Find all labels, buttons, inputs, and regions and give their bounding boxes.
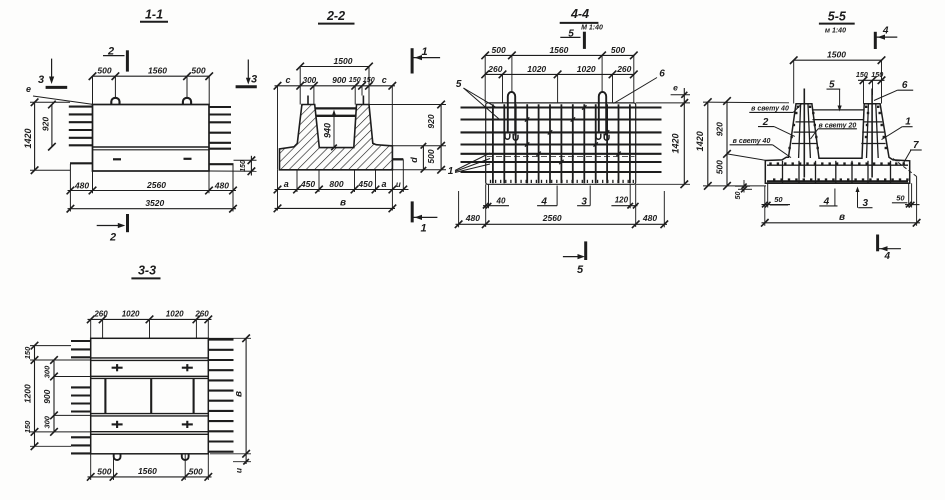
svg-text:150: 150: [23, 420, 32, 433]
section flag 1 (top right): [412, 46, 440, 74]
svg-text:4: 4: [882, 26, 889, 37]
svg-text:500: 500: [97, 66, 111, 76]
pylon reinforcement (ladders): [792, 89, 886, 178]
hairpin loop bars (items 5/6): [505, 92, 609, 140]
protruding rebar right: [209, 107, 234, 164]
dimensions 500/1560/500 and 260/1020/1020/260 (top): [481, 45, 637, 103]
svg-text:260: 260: [93, 309, 108, 318]
svg-text:7: 7: [913, 140, 919, 151]
svg-text:900: 900: [332, 75, 346, 85]
svg-text:1500: 1500: [334, 56, 353, 66]
svg-text:1: 1: [420, 223, 426, 235]
svg-text:и: и: [234, 467, 244, 473]
callout 1 with leaders: [448, 153, 490, 177]
svg-text:1560: 1560: [138, 466, 157, 476]
svg-text:1-1: 1-1: [145, 8, 163, 22]
svg-text:500: 500: [611, 45, 625, 55]
svg-text:1: 1: [905, 117, 911, 128]
panel outline 3-3 with band lines: [91, 338, 209, 454]
svg-text:920: 920: [40, 117, 50, 131]
section flag 2 (bottom): [97, 214, 128, 244]
svg-text:d: d: [409, 157, 419, 163]
svg-text:150: 150: [363, 75, 375, 84]
section flag 5 (top): [560, 28, 584, 49]
svg-text:а: а: [284, 179, 289, 189]
svg-text:150: 150: [23, 346, 32, 359]
label е (loop protrusion): [671, 83, 690, 106]
svg-text:260: 260: [487, 64, 502, 74]
svg-text:3520: 3520: [145, 198, 164, 208]
svg-text:480: 480: [642, 213, 657, 223]
svg-text:в: в: [839, 212, 845, 223]
callout 1 with leader: [882, 117, 913, 140]
svg-text:с: с: [285, 75, 290, 85]
svg-text:3: 3: [251, 74, 257, 86]
svg-text:м 1:40: м 1:40: [825, 27, 846, 34]
label "в свету 40" (lower): [730, 138, 791, 158]
dimensions 500/1560/500 (bottom of 3-3): [87, 454, 212, 481]
dimension 150 (right step): [209, 156, 257, 176]
svg-text:120: 120: [615, 195, 629, 204]
dimensions а/450/800/450/а/и and в (bottom): [274, 159, 409, 212]
svg-text:50: 50: [896, 193, 905, 202]
section flag 2 (top): [103, 45, 127, 71]
dimension 1420 (right of 4-4): [636, 88, 690, 188]
svg-text:50: 50: [733, 192, 742, 200]
dimension 1500 (top): [296, 56, 372, 105]
svg-text:480: 480: [465, 213, 480, 223]
svg-text:500: 500: [714, 160, 724, 174]
node label е with leader: [26, 84, 92, 104]
dimensions 1420, 920, 500 (left): [695, 97, 789, 190]
svg-text:480: 480: [74, 180, 89, 190]
svg-text:940: 940: [322, 123, 332, 138]
svg-text:1200: 1200: [22, 384, 32, 403]
svg-text:3: 3: [38, 74, 44, 86]
binding-wire tick marks: [525, 105, 621, 164]
svg-text:920: 920: [426, 114, 436, 128]
svg-text:150: 150: [856, 70, 868, 79]
svg-text:500: 500: [97, 466, 111, 476]
svg-text:450: 450: [300, 179, 315, 189]
foundation body outline 5-5: [765, 104, 909, 184]
svg-text:300: 300: [42, 415, 51, 428]
view 4-4 title with scale: [560, 7, 603, 31]
dashed slope line (item 7): [893, 159, 917, 177]
callout 2 with leader: [758, 117, 795, 136]
protruding rebar left (plan): [71, 341, 91, 453]
svg-text:5-5: 5-5: [828, 10, 847, 24]
protruding rebar left: [69, 107, 93, 164]
section flag 3 (left): [38, 59, 67, 88]
bottom mesh tick row: [491, 180, 634, 183]
dimension 500/1560/500 (top): [89, 66, 213, 105]
svg-text:920: 920: [714, 122, 724, 136]
protruding rebar right (plan): [208, 340, 233, 452]
top plate between pylons: [315, 108, 357, 115]
rebar stubs on pylons: [308, 96, 363, 105]
svg-text:1420: 1420: [23, 128, 33, 148]
protruding bar right (step): [392, 158, 403, 160]
lifting loops (bottom, plan): [114, 454, 189, 460]
dimension 50 (left, cover): [733, 180, 752, 200]
svg-text:5: 5: [456, 79, 462, 90]
svg-text:1560: 1560: [549, 45, 568, 55]
svg-text:500: 500: [189, 466, 203, 476]
dimensions в and и (right of 3-3): [208, 335, 251, 474]
dimensions 1500 and 150/150 (top): [790, 50, 885, 104]
callout 5 with arrow: [827, 79, 842, 111]
view 5-5 title with scale: [819, 10, 855, 35]
anchor cross marks: [112, 364, 193, 428]
cavity wall lines (plan): [105, 378, 193, 413]
dimensions 480/2560/480 and 3520 (bottom): [67, 164, 237, 213]
panel outline 4-4: [486, 103, 636, 184]
bottom dimensions 50/4/3/50 and в: [761, 177, 920, 227]
svg-text:2: 2: [109, 232, 116, 244]
svg-text:40: 40: [496, 196, 506, 205]
svg-text:2-2: 2-2: [326, 9, 345, 23]
svg-text:1020: 1020: [122, 309, 140, 318]
svg-text:260: 260: [194, 309, 209, 318]
svg-text:а: а: [381, 179, 386, 189]
dimension 1420 and 920 (left): [23, 99, 70, 175]
callout 5 with leaders: [456, 79, 499, 120]
section flag 1 (bottom right): [412, 201, 437, 234]
svg-text:150: 150: [871, 70, 883, 79]
svg-text:1500: 1500: [827, 50, 846, 60]
svg-text:2560: 2560: [146, 180, 166, 190]
svg-text:1020: 1020: [527, 64, 546, 74]
svg-text:5: 5: [577, 264, 584, 276]
vertical rebar 4-4: [493, 104, 630, 183]
dimensions 920/500 and d (right): [369, 101, 446, 174]
svg-text:450: 450: [357, 179, 372, 189]
svg-text:в: в: [233, 391, 244, 397]
svg-text:1560: 1560: [148, 66, 167, 76]
bar section dashes inside slab: [113, 158, 192, 161]
svg-text:800: 800: [329, 179, 343, 189]
callout 6 with leader: [614, 68, 666, 103]
svg-text:150: 150: [349, 75, 361, 84]
dimension row с/300/900/150/150/с: [274, 75, 396, 170]
svg-text:е: е: [26, 84, 31, 94]
dimensions 150/1200/150 and 300/900/300 (left): [22, 342, 90, 450]
lifting loops (top): [111, 98, 191, 105]
svg-text:М 1:40: М 1:40: [581, 24, 603, 31]
section flag 4 (top): [875, 26, 897, 50]
svg-text:с: с: [382, 75, 387, 85]
svg-text:в свету 40: в свету 40: [733, 138, 771, 145]
slab reinforcement 5-5: [767, 161, 908, 183]
svg-text:6: 6: [659, 68, 665, 79]
svg-text:1: 1: [448, 166, 454, 177]
svg-text:1420: 1420: [671, 133, 681, 153]
bottom dimensions 40/4/3/120 and 480/2560/480: [455, 184, 668, 228]
svg-text:900: 900: [42, 389, 52, 403]
label "в свету 40" (top): [749, 104, 801, 113]
svg-text:300: 300: [303, 76, 317, 85]
svg-text:1420: 1420: [695, 131, 705, 151]
callout 6 with leader: [874, 80, 913, 100]
svg-text:1020: 1020: [166, 309, 184, 318]
foundation body outline (hatched): [280, 105, 393, 170]
svg-text:в свету 40: в свету 40: [751, 106, 789, 113]
section flag 4 (bottom): [878, 235, 901, 263]
svg-text:в: в: [340, 198, 346, 209]
svg-text:4-4: 4-4: [570, 7, 589, 21]
svg-text:260: 260: [616, 64, 631, 74]
horizontal rebar 4-4: [461, 108, 662, 173]
svg-text:3-3: 3-3: [138, 264, 156, 278]
svg-text:6: 6: [902, 80, 908, 91]
svg-text:е: е: [673, 83, 678, 93]
svg-text:500: 500: [426, 149, 436, 163]
svg-text:2560: 2560: [542, 213, 562, 223]
section flag 5 (bottom): [563, 241, 586, 276]
rebar section dots: [769, 106, 908, 181]
svg-text:500: 500: [492, 45, 506, 55]
svg-text:1020: 1020: [577, 64, 596, 74]
view 2-2 title: [318, 9, 355, 24]
dimensions 260/1020/1020/260 (top of 3-3): [87, 309, 212, 338]
label "в свету 20" (middle): [811, 122, 857, 139]
svg-text:500: 500: [191, 66, 205, 76]
svg-text:4: 4: [884, 251, 891, 262]
callout 7 with leader: [904, 140, 922, 163]
section flag 3 (right): [236, 60, 257, 87]
svg-text:480: 480: [214, 180, 229, 190]
view 1-1 title: [140, 8, 168, 22]
block outline 1-1: [93, 105, 210, 172]
svg-text:150: 150: [240, 160, 247, 172]
svg-text:и: и: [396, 180, 401, 189]
svg-text:300: 300: [42, 365, 51, 378]
svg-text:50: 50: [774, 195, 783, 204]
dimension 940 (cavity depth): [322, 110, 337, 151]
dashed line (slab top): [487, 156, 635, 158]
view 3-3 title: [131, 264, 160, 279]
svg-text:1: 1: [421, 46, 427, 58]
